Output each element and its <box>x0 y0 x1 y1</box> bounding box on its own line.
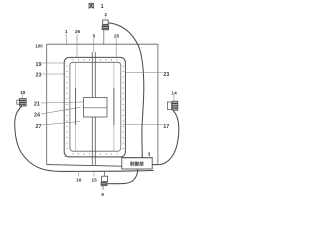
svg-text:24: 24 <box>34 113 40 119</box>
leader 2 <box>104 17 106 19</box>
svg-text:27: 27 <box>36 124 42 130</box>
pipe from top component to control box <box>109 23 144 158</box>
bottom unit stem down <box>102 186 104 190</box>
svg-text:100: 100 <box>35 44 43 49</box>
leader 26 <box>76 34 78 58</box>
outer enclosure box 100 <box>47 44 158 164</box>
svg-text:17: 17 <box>163 124 169 130</box>
svg-text:1: 1 <box>65 29 68 35</box>
inner shelf line <box>64 157 153 158</box>
vessel wall hatch dots <box>66 59 123 154</box>
wire right unit to control box <box>152 111 178 165</box>
leader 5 <box>93 38 95 52</box>
svg-text:23: 23 <box>163 72 169 78</box>
svg-text:1: 1 <box>101 4 104 10</box>
vessel outer wall <box>64 57 125 156</box>
center box divider <box>84 107 108 109</box>
svg-text:3: 3 <box>148 151 151 157</box>
leader 19 <box>42 62 66 64</box>
wire control box to bottom unit <box>108 169 138 184</box>
right side electrode (dashed) <box>113 63 115 151</box>
svg-text:2: 2 <box>104 12 107 18</box>
leader 3 <box>149 156 150 158</box>
outer box bottom edge left segment <box>47 165 122 167</box>
leader 24 <box>41 107 81 114</box>
leader 15 <box>93 172 95 176</box>
left side electrode (dashed) <box>75 63 77 151</box>
leader 27 <box>42 122 80 126</box>
svg-text:9: 9 <box>101 192 104 198</box>
svg-text:16: 16 <box>76 178 82 184</box>
vessel inner wall <box>70 62 121 151</box>
svg-text:15: 15 <box>91 178 97 184</box>
leader 18 <box>22 94 24 98</box>
svg-text:制御部: 制御部 <box>130 160 144 167</box>
left unit 18 <box>19 99 26 107</box>
svg-text:26: 26 <box>75 29 81 35</box>
control box 制御部 <box>122 158 152 169</box>
top component (pump 2) <box>103 20 109 24</box>
svg-text:21: 21 <box>34 102 40 108</box>
leader 23 right <box>126 72 163 74</box>
wire left unit to bottom <box>15 106 154 171</box>
svg-text:図: 図 <box>88 2 94 10</box>
svg-text:23: 23 <box>36 73 42 79</box>
bottom unit <box>102 176 108 181</box>
svg-text:5: 5 <box>93 33 96 39</box>
center electrode line b <box>94 52 96 165</box>
leader 21 <box>41 102 83 103</box>
right unit 14 <box>172 101 178 110</box>
svg-text:19: 19 <box>36 62 42 68</box>
center electrode line a <box>91 52 93 165</box>
leader 23 left <box>42 73 66 75</box>
center box <box>84 98 108 118</box>
bottom unit stem up <box>103 171 105 176</box>
leader 16 <box>78 172 80 176</box>
top component stem <box>103 30 105 44</box>
leader 1 <box>65 34 68 44</box>
svg-text:25: 25 <box>114 34 120 40</box>
svg-text:18: 18 <box>20 90 26 96</box>
leader 14 <box>173 95 175 101</box>
leader 25 <box>115 38 117 58</box>
outer box bottom edge right segment <box>152 164 158 166</box>
leader 17 <box>123 123 163 125</box>
